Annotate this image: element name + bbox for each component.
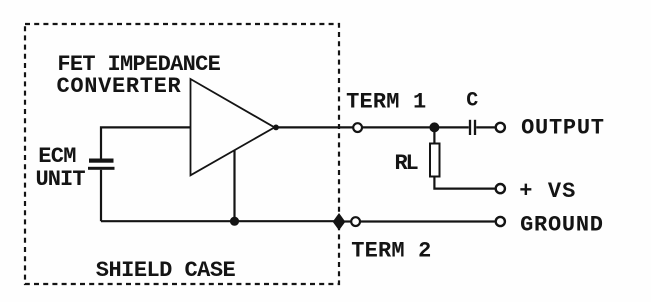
node TERM 2 diamond on shield boundary [333, 214, 344, 229]
svg-text:OUTPUT: OUTPUT [521, 115, 605, 140]
wire: TERM 2 to GROUND terminal [360, 220, 495, 222]
wire: ECM bottom down to ground bus [100, 170, 102, 221]
node: junction dot on ground bus [230, 217, 239, 226]
svg-text:ECM: ECM [38, 144, 76, 169]
label ECM UNIT [36, 144, 86, 192]
wire: feedback from triangle bottom edge down to bus [233, 151, 235, 222]
svg-text:TERM 2: TERM 2 [351, 238, 431, 263]
svg-text:TERM 1: TERM 1 [346, 89, 426, 114]
resistor RL [430, 144, 440, 177]
wire: junction to capacitor C [434, 126, 468, 128]
shield case dashed box [25, 24, 339, 284]
wire: amplifier output to TERM 1 [276, 126, 353, 128]
wire: junction down to resistor RL [433, 127, 435, 143]
svg-text:FET IMPEDANCE: FET IMPEDANCE [57, 52, 220, 77]
svg-text:GROUND: GROUND [520, 213, 604, 238]
terminal TERM 1 open circle [353, 123, 362, 132]
svg-text:+ VS: + VS [519, 179, 576, 204]
svg-text:UNIT: UNIT [36, 167, 86, 192]
wire: capacitor C to OUTPUT terminal [476, 126, 495, 128]
node: amplifier output dot [273, 125, 279, 131]
wire: ECM top to amplifier input [101, 127, 191, 159]
terminal +VS open circle [496, 184, 505, 193]
terminal GROUND open circle [496, 217, 505, 226]
wire: ground bus inside shield [101, 220, 334, 222]
svg-text:CONVERTER: CONVERTER [57, 74, 182, 99]
terminal TERM 2 open circle [351, 217, 360, 226]
capacitor ECM unit (electret mic symbol) [88, 159, 115, 170]
wire: resistor RL to +VS terminal [434, 177, 494, 189]
wire: diamond to TERM 2 circle [344, 220, 351, 222]
wire: TERM 1 to junction [362, 126, 434, 128]
label FET IMPEDANCE CONVERTER [57, 52, 221, 99]
svg-text:RL: RL [395, 151, 419, 176]
svg-text:SHIELD CASE: SHIELD CASE [96, 258, 236, 283]
node: output junction dot [429, 122, 439, 132]
svg-text:C: C [466, 90, 478, 113]
terminal OUTPUT open circle [496, 123, 505, 132]
capacitor C (series coupling cap) [470, 120, 475, 135]
op-amp U1 triangle (FET impedance converter) [191, 79, 275, 175]
